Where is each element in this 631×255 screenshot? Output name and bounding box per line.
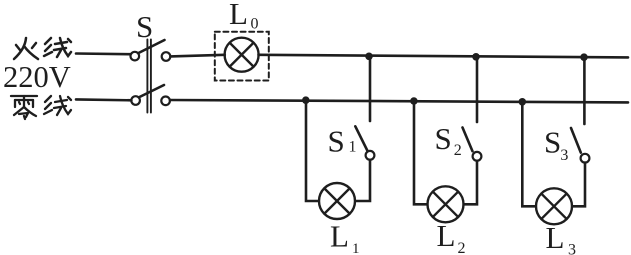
switch S1 terminal bbox=[366, 151, 375, 160]
svg-text:L: L bbox=[546, 220, 565, 255]
svg-text:S: S bbox=[435, 121, 452, 156]
label S3 bbox=[544, 125, 568, 165]
wire branch3 neutral to lamp bbox=[522, 102, 536, 207]
switch S bottom pole right terminal bbox=[161, 97, 170, 106]
wire branch2 switch drop bbox=[476, 57, 479, 122]
switch S bottom pole blade bbox=[140, 85, 165, 97]
svg-text:0: 0 bbox=[251, 15, 259, 32]
wire branch3 switch to lamp bbox=[572, 163, 585, 207]
label L0 bbox=[229, 0, 259, 32]
label L3 bbox=[546, 220, 577, 255]
svg-text:L: L bbox=[229, 0, 248, 31]
switch S3 blade bbox=[571, 128, 581, 153]
switch S1 blade bbox=[355, 126, 367, 150]
dashed box around L0 bbox=[215, 32, 269, 81]
label S1 bbox=[328, 123, 357, 158]
lamp L3 bbox=[536, 188, 572, 224]
wire branch2 switch to lamp bbox=[464, 161, 477, 204]
svg-text:3: 3 bbox=[560, 147, 568, 164]
switch S3 terminal bbox=[581, 154, 590, 163]
node live-branch1 bbox=[365, 53, 373, 61]
label S2 bbox=[435, 121, 462, 159]
svg-text:S: S bbox=[328, 123, 345, 158]
node live-branch2 bbox=[472, 53, 480, 61]
switch S2 blade bbox=[463, 128, 473, 152]
switch S bottom pole left terminal bbox=[131, 96, 140, 105]
wire branch1 switch to lamp bbox=[355, 160, 370, 201]
node neutral-branch3 bbox=[519, 98, 527, 106]
node live-branch3 bbox=[580, 53, 588, 61]
wire neutral-left bbox=[76, 98, 131, 102]
lamp L0 bbox=[225, 38, 259, 72]
label 火线 (live wire text) bbox=[14, 38, 71, 59]
label L1 bbox=[330, 218, 360, 255]
lamp L2 bbox=[428, 186, 464, 222]
svg-text:L: L bbox=[437, 218, 456, 253]
wire live-left bbox=[76, 52, 130, 55]
svg-text:S: S bbox=[136, 9, 153, 44]
svg-text:1: 1 bbox=[352, 241, 360, 255]
switch S top pole right terminal bbox=[162, 52, 171, 61]
switch S top pole blade bbox=[139, 40, 165, 53]
lamp L1 bbox=[319, 183, 355, 219]
label L2 bbox=[437, 218, 466, 255]
wire branch1 switch drop bbox=[369, 56, 372, 121]
svg-text:2: 2 bbox=[458, 240, 466, 255]
svg-text:L: L bbox=[330, 218, 349, 253]
svg-text:3: 3 bbox=[568, 241, 576, 255]
switch S top pole left terminal bbox=[131, 52, 140, 61]
label 零线 (neutral wire text) bbox=[11, 96, 71, 119]
wire live-mid bbox=[171, 55, 225, 57]
svg-text:220V: 220V bbox=[3, 60, 71, 94]
wire branch2 neutral to lamp bbox=[414, 101, 427, 204]
svg-text:2: 2 bbox=[454, 142, 462, 159]
wire neutral-right bbox=[170, 100, 628, 102]
switch S2 terminal bbox=[473, 152, 482, 161]
svg-text:1: 1 bbox=[349, 139, 357, 156]
switch S mechanical link bbox=[147, 40, 151, 113]
wire branch1 neutral to lamp bbox=[306, 100, 319, 201]
wire branch3 switch drop bbox=[583, 57, 586, 124]
node neutral-branch1 bbox=[302, 96, 310, 104]
node neutral-branch2 bbox=[410, 97, 418, 105]
svg-text:S: S bbox=[544, 125, 561, 160]
wire live-right bbox=[259, 55, 629, 58]
